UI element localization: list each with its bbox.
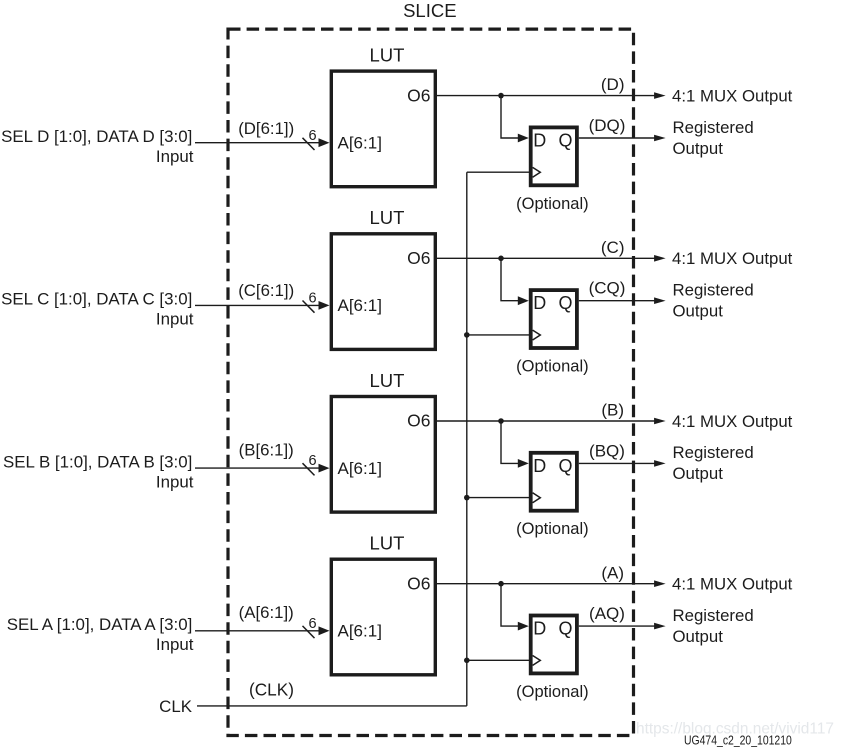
svg-text:(B): (B) xyxy=(601,401,624,420)
arrowhead into FF D (D) xyxy=(518,134,529,143)
arrowhead O6 output D xyxy=(654,92,666,99)
wire input B xyxy=(195,467,319,469)
svg-text:Registered: Registered xyxy=(673,443,754,462)
wire clock trunk (vertical) xyxy=(466,172,468,706)
svg-text:(D[6:1]): (D[6:1]) xyxy=(238,119,294,138)
svg-text:Registered: Registered xyxy=(673,118,754,137)
svg-text:(A[6:1]): (A[6:1]) xyxy=(239,603,294,622)
clock wedge (FFD) xyxy=(533,167,541,177)
node clock junction B xyxy=(464,495,470,501)
svg-text:O6: O6 xyxy=(407,85,430,105)
arrowhead input A xyxy=(319,626,330,635)
wire Q output B xyxy=(579,462,655,464)
node junction B xyxy=(498,418,504,424)
svg-text:(B[6:1]): (B[6:1]) xyxy=(239,440,294,459)
svg-text:Input: Input xyxy=(156,310,194,329)
svg-text:A[6:1]: A[6:1] xyxy=(338,134,382,153)
arrowhead into FF D (C) xyxy=(518,296,529,305)
svg-text:Q: Q xyxy=(558,456,572,476)
node clock junction C xyxy=(464,332,470,338)
bus slash A xyxy=(303,626,315,638)
svg-text:Registered: Registered xyxy=(673,281,754,300)
wire input C xyxy=(195,304,319,306)
wire O6 output C xyxy=(437,257,655,259)
svg-text:Q: Q xyxy=(558,293,572,313)
node junction A xyxy=(498,581,504,587)
svg-text:(A): (A) xyxy=(601,563,624,582)
node junction D xyxy=(498,93,504,99)
wire branch to FF A xyxy=(501,584,519,626)
svg-text:(AQ): (AQ) xyxy=(589,604,625,623)
svg-text:D: D xyxy=(533,456,546,476)
svg-text:(Optional): (Optional) xyxy=(516,195,588,213)
clock wedge (FFC) xyxy=(533,330,541,340)
svg-text:(BQ): (BQ) xyxy=(589,441,625,460)
wire input A xyxy=(195,630,319,632)
svg-text:UG474_c2_20_101210: UG474_c2_20_101210 xyxy=(684,733,792,748)
svg-text:(Optional): (Optional) xyxy=(516,358,588,376)
arrowhead input C xyxy=(319,301,330,310)
wire Q output D xyxy=(579,137,655,139)
wire branch to FF C xyxy=(501,258,519,300)
svg-text:A[6:1]: A[6:1] xyxy=(338,622,382,641)
wire branch to FF D xyxy=(501,96,519,138)
svg-text:4:1 MUX Output: 4:1 MUX Output xyxy=(672,575,793,594)
svg-text:LUT: LUT xyxy=(370,207,405,228)
clock wedge (FFB) xyxy=(533,493,541,503)
svg-text:4:1 MUX Output: 4:1 MUX Output xyxy=(672,87,793,106)
svg-text:(D): (D) xyxy=(601,75,625,94)
LUT A xyxy=(331,559,435,675)
svg-text:Input: Input xyxy=(156,635,194,654)
LUT B xyxy=(331,397,435,513)
svg-text:O6: O6 xyxy=(407,411,430,431)
svg-text:Input: Input xyxy=(156,472,194,491)
wire CLK input (horizontal) xyxy=(197,705,467,707)
wire clock branch A xyxy=(467,659,531,661)
svg-text:6: 6 xyxy=(308,616,316,632)
arrowhead input D xyxy=(319,138,330,147)
svg-text:SEL D [1:0], DATA D [3:0]: SEL D [1:0], DATA D [3:0] xyxy=(1,127,192,146)
flip-flop FFC xyxy=(531,290,577,348)
svg-text:(Optional): (Optional) xyxy=(516,683,588,701)
svg-text:D: D xyxy=(533,293,546,313)
svg-text:SLICE: SLICE xyxy=(403,0,456,21)
svg-text:6: 6 xyxy=(308,291,316,307)
svg-text:4:1 MUX Output: 4:1 MUX Output xyxy=(672,249,793,268)
flip-flop FFA xyxy=(531,616,577,674)
svg-text:CLK: CLK xyxy=(159,697,193,716)
flip-flop FFD xyxy=(531,127,577,185)
svg-text:D: D xyxy=(533,130,546,150)
svg-text:6: 6 xyxy=(308,128,316,144)
arrowhead into FF D (B) xyxy=(518,459,529,468)
svg-text:SEL C [1:0], DATA C [3:0]: SEL C [1:0], DATA C [3:0] xyxy=(1,290,192,309)
wire input D xyxy=(195,142,319,144)
arrowhead Q output C xyxy=(654,297,666,304)
wire clock branch D xyxy=(467,171,531,173)
bus slash C xyxy=(303,301,315,313)
svg-text:(DQ): (DQ) xyxy=(589,116,626,135)
svg-text:6: 6 xyxy=(308,453,316,469)
arrowhead Q output A xyxy=(654,623,666,630)
arrowhead into FF D (A) xyxy=(518,622,529,631)
svg-text:D: D xyxy=(533,619,546,639)
wire clock branch C xyxy=(467,334,531,336)
svg-text:(CLK): (CLK) xyxy=(249,679,294,699)
svg-text:A[6:1]: A[6:1] xyxy=(338,296,382,315)
arrowhead Q output D xyxy=(654,135,666,142)
arrowhead O6 output A xyxy=(654,580,666,587)
svg-text:4:1 MUX Output: 4:1 MUX Output xyxy=(672,412,793,431)
arrowhead O6 output B xyxy=(654,418,666,425)
wire O6 output D xyxy=(437,95,655,97)
svg-text:Output: Output xyxy=(673,302,724,321)
LUT D xyxy=(331,71,435,187)
clock wedge (FFA) xyxy=(533,656,541,666)
svg-text:(C[6:1]): (C[6:1]) xyxy=(238,281,294,300)
wire clock branch B xyxy=(467,497,531,499)
svg-text:SEL A [1:0], DATA A [3:0]: SEL A [1:0], DATA A [3:0] xyxy=(7,615,193,634)
svg-text:LUT: LUT xyxy=(370,370,405,391)
svg-text:Input: Input xyxy=(156,147,194,166)
node clock junction A xyxy=(464,658,470,664)
svg-text:O6: O6 xyxy=(407,573,430,593)
svg-text:LUT: LUT xyxy=(370,45,405,66)
slice boundary box (dashed) xyxy=(228,29,634,735)
svg-text:(CQ): (CQ) xyxy=(589,279,626,298)
svg-text:Output: Output xyxy=(673,627,724,646)
bus slash D xyxy=(303,138,315,150)
svg-text:Q: Q xyxy=(558,619,572,639)
arrowhead Q output B xyxy=(654,460,666,467)
wire Q output C xyxy=(579,300,655,302)
svg-text:LUT: LUT xyxy=(370,533,405,554)
wire O6 output B xyxy=(437,420,655,422)
svg-text:A[6:1]: A[6:1] xyxy=(338,459,382,478)
wire branch to FF B xyxy=(501,421,519,463)
svg-text:Registered: Registered xyxy=(673,606,754,625)
arrowhead input B xyxy=(319,464,330,473)
wire O6 output A xyxy=(437,583,655,585)
LUT C xyxy=(331,234,435,350)
svg-text:(Optional): (Optional) xyxy=(516,520,588,538)
arrowhead O6 output C xyxy=(654,255,666,262)
bus slash B xyxy=(303,463,315,475)
svg-text:Output: Output xyxy=(673,139,724,158)
svg-text:(C): (C) xyxy=(601,238,625,257)
svg-text:SEL B [1:0], DATA B [3:0]: SEL B [1:0], DATA B [3:0] xyxy=(3,452,192,471)
svg-text:Q: Q xyxy=(558,130,572,150)
flip-flop FFB xyxy=(531,453,577,511)
node junction C xyxy=(498,255,504,261)
svg-text:Output: Output xyxy=(673,464,724,483)
svg-text:O6: O6 xyxy=(407,248,430,268)
wire Q output A xyxy=(579,625,655,627)
